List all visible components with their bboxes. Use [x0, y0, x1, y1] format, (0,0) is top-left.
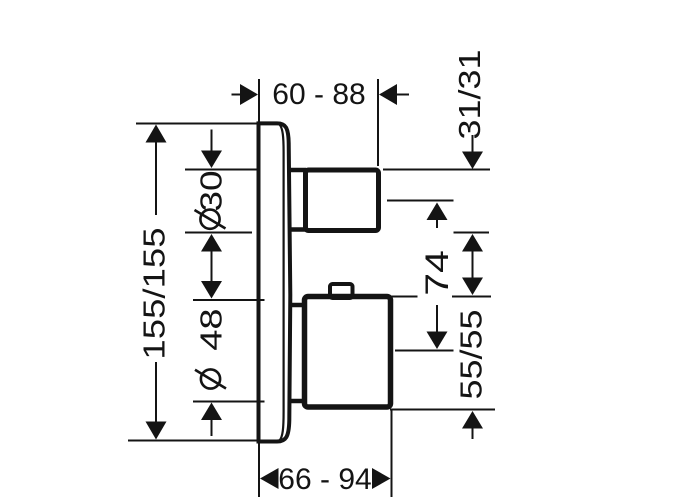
arrow right-pointing at x=390.5 (66-94 right)	[372, 468, 391, 489]
arrow up at (211.5,402.5) for dia48 bottom	[201, 403, 222, 421]
arrow up at (472.5,411) for 55/55 bottom	[462, 411, 483, 429]
dimension dia30/dia48 line segments x=211.5	[211, 130, 213, 153]
diameter symbol of dia30	[195, 210, 226, 229]
upper knob stem	[288, 168, 306, 173]
wire: extension line y=401.5 left (lower knob face bottom)	[193, 401, 265, 403]
svg-text:30: 30	[194, 170, 229, 211]
lower knob stem	[291, 303, 306, 308]
wire: extension line y=169.5 left (upper knob top)	[185, 169, 257, 171]
wire: extension line y=232.5 right	[454, 232, 490, 234]
dimension 155/155 line segments	[155, 127, 157, 215]
arrow down at (211.5,168) for dia30 top	[201, 151, 222, 169]
lower knob body	[305, 297, 391, 408]
arrow right-pointing at x=259 (60-88 left)	[240, 84, 258, 105]
wire: extension line y=409.5 right (lower knob bottom)	[390, 409, 495, 411]
wire: extension line y=440.5 plate bottom	[128, 440, 257, 442]
arrow up at (472.5,234) for 31/31 bottom	[462, 234, 483, 252]
upper knob body	[306, 170, 379, 231]
wire: extension line x=378 (60-88 right)	[377, 79, 379, 166]
diameter symbol of dia48	[195, 369, 226, 388]
wire: extension line y=123.5 plate top	[136, 123, 257, 125]
arrow down at (156,439.5) for 155/155 bottom	[146, 422, 167, 440]
svg-text:155/155: 155/155	[137, 227, 172, 359]
svg-text:66 - 94: 66 - 94	[278, 463, 371, 496]
arrow up at (156,124.5) for 155/155 top	[146, 125, 167, 143]
arrow up at (437,202.5) for 74 top	[427, 203, 448, 221]
escutcheon face inner edge	[280, 125, 284, 441]
wire: extension line y=232.5 left (upper knob bottom)	[185, 232, 252, 234]
svg-text:31/31: 31/31	[453, 50, 487, 140]
wire: extension line y=350.5 lower knob centerline	[395, 350, 454, 352]
svg-text:74: 74	[419, 250, 455, 296]
arrow down at (437,349) for 74 bottom	[427, 332, 448, 350]
svg-text:48: 48	[195, 308, 229, 350]
wire: extension line x=391.5 (66-94 right)	[391, 410, 393, 498]
arrow left-pointing at x=260 (66-94 left)	[260, 468, 279, 489]
wire: extension line y=169.5 right	[383, 169, 490, 171]
arrow left-pointing at x=378 (60-88 right)	[379, 84, 397, 105]
wire: extension line left wall plane x=259	[258, 79, 260, 497]
wire: extension line y=200.5 upper knob centerline	[387, 200, 454, 202]
escutcheon plate outline	[259, 123, 391, 441]
arrow down at (211.5,298.5) for dia48 top	[201, 281, 222, 299]
wire: extension line y=296.5 right (lower knob top)	[391, 296, 418, 298]
arrow down at (472.5,169) for 31/31	[462, 152, 483, 170]
dimension 60-88 arrow tails	[232, 94, 244, 96]
arrow down at (472.5,295) for 55/55 top	[462, 278, 483, 296]
dimension 74 line segments x=437	[436, 204, 438, 228]
wire: extension line y=300 left (lower knob face top)	[193, 299, 265, 301]
arrow up at (211.5,234) for dia30 bottom	[201, 234, 222, 252]
dimension 55/55 line segments x=472.5	[472, 236, 474, 293]
lower knob tab	[330, 284, 353, 298]
dimension 31/31 line	[472, 135, 474, 153]
svg-text:60 - 88: 60 - 88	[272, 78, 365, 111]
svg-text:55/55: 55/55	[455, 310, 489, 400]
